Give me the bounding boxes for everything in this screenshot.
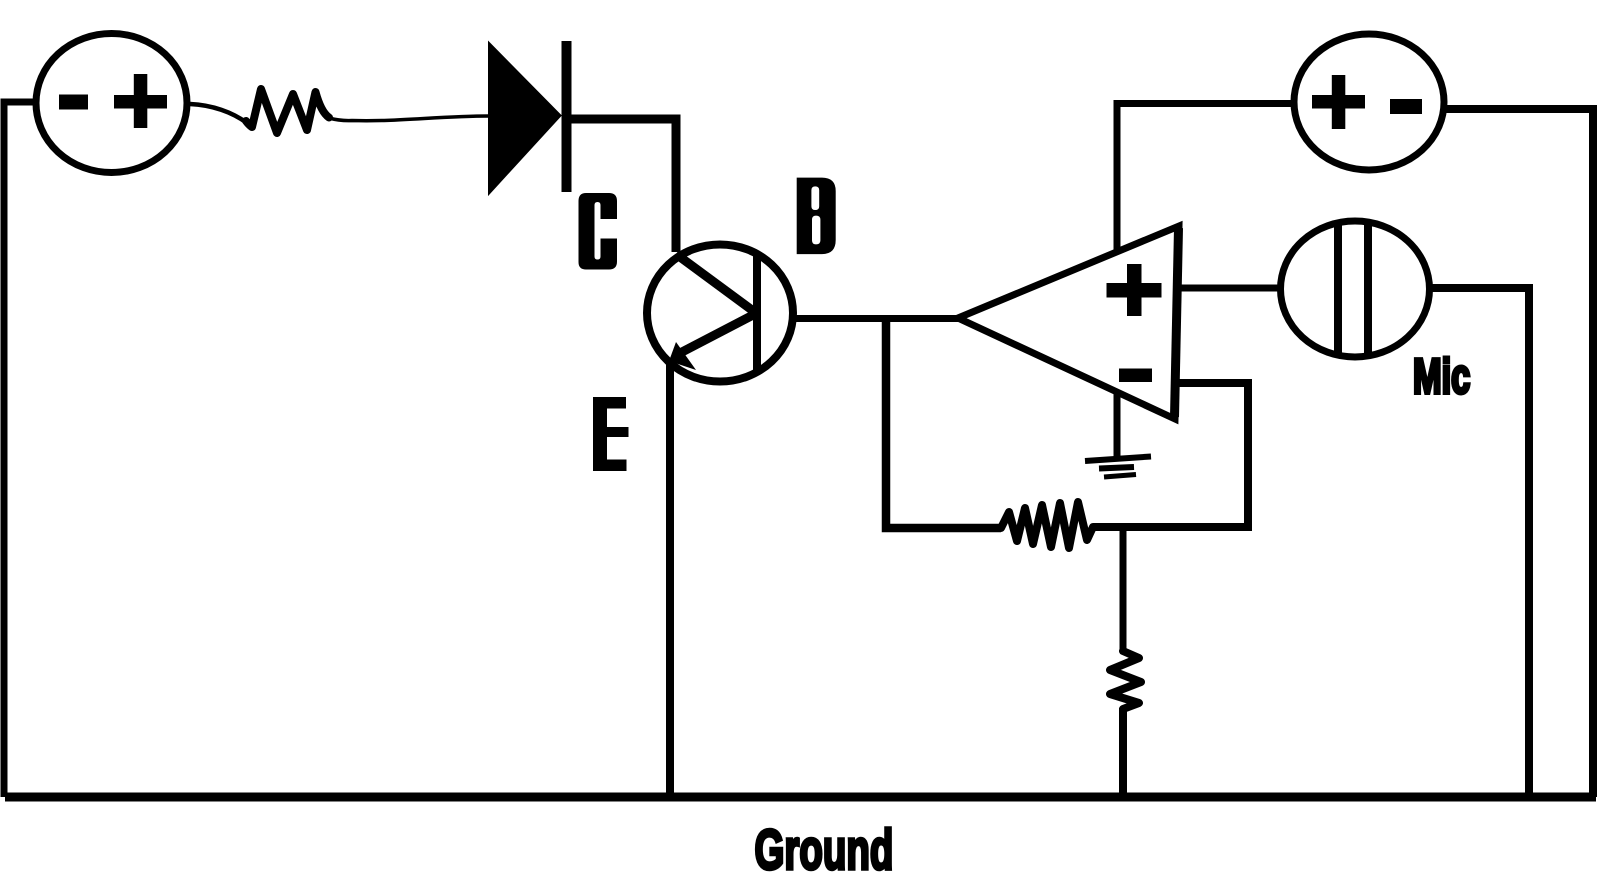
wire D1 to Q1 collector — [564, 119, 676, 252]
label C — [579, 193, 618, 270]
wire R1 to D1 — [329, 116, 489, 121]
resistor R1 — [246, 89, 329, 133]
wire R3 bottom — [1119, 708, 1127, 797]
microphone MIC1 — [1281, 220, 1430, 358]
label E — [593, 397, 629, 471]
wire mic to right vertical — [1430, 288, 1529, 797]
op-amp U1 — [958, 226, 1179, 419]
diode D1 — [489, 41, 572, 194]
wire op-amp V+ supply — [1117, 104, 1291, 252]
wire battery V2 to right frame — [1444, 109, 1593, 797]
wire left frame — [4, 102, 34, 797]
wire op-amp + input to mic — [1179, 285, 1280, 292]
svg-text:Ground: Ground — [755, 819, 894, 877]
battery V2 — [1294, 34, 1444, 170]
resistor R2 — [1001, 502, 1093, 548]
label B — [797, 178, 836, 255]
ground op-amp — [1085, 394, 1151, 477]
wire op-amp - input feedback right leg — [1093, 383, 1248, 527]
battery V1 — [36, 34, 187, 173]
ground bus — [5, 793, 1596, 802]
svg-text:Mic: Mic — [1413, 349, 1470, 403]
transistor Q1 — [647, 245, 793, 382]
wire R3 top — [1120, 527, 1127, 652]
wire Q1 base to op-amp — [794, 315, 958, 322]
wire battery V1 to R1 — [190, 104, 247, 123]
wire emitter to ground bus — [666, 360, 674, 797]
wire feedback left leg — [886, 318, 1001, 528]
resistor R3 — [1110, 651, 1141, 709]
